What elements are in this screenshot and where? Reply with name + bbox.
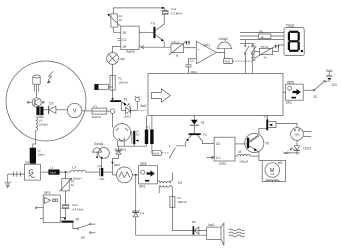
- svg-text:S2: S2: [81, 236, 85, 240]
- svg-text:C1: C1: [122, 38, 126, 42]
- capacitor C2 (elko): [99, 168, 101, 176]
- 7-segment display 7Seg1: [284, 28, 304, 56]
- svg-text:C3: C3: [190, 58, 194, 62]
- DFF output wire: [235, 143, 247, 145]
- wire T7 to VD1: [276, 123, 297, 127]
- svg-text:100µH: 100µH: [239, 159, 248, 163]
- svg-text:RsFf1: RsFf1: [126, 50, 135, 54]
- svg-text:+: +: [198, 47, 200, 51]
- connector node circle: [110, 109, 115, 114]
- ground rail under LED1: [284, 151, 300, 155]
- svg-text:1S: 1S: [122, 31, 126, 35]
- wire Aw1 to GR1: [132, 174, 138, 176]
- segment c: [298, 42, 300, 51]
- OP2 output wire: [60, 216, 64, 218]
- block arrow: [152, 89, 171, 102]
- fuse F3 100mA: [170, 197, 175, 208]
- loudspeaker Lsp1: [207, 227, 221, 239]
- LED2: [121, 109, 125, 111]
- OP1 output wire: [217, 49, 225, 59]
- transistor T1 package (TO-92 can): [33, 75, 40, 92]
- heat arrows PTC2: [276, 46, 279, 48]
- svg-text:VD1: VD1: [294, 133, 300, 137]
- wire C2 to node: [103, 171, 112, 173]
- svg-text:C1: C1: [216, 156, 220, 160]
- svg-text:10µ: 10µ: [99, 177, 104, 181]
- junction arrow: [63, 218, 66, 220]
- junction arrow above Aw1: [111, 162, 113, 164]
- svg-text:Tr2: Tr2: [177, 181, 182, 185]
- svg-text:M: M: [270, 168, 275, 174]
- wire L3 to C2: [86, 171, 100, 173]
- wire node down to D4: [135, 175, 137, 213]
- voltmeter V: [67, 103, 81, 117]
- wire 1R to lamp: [113, 46, 121, 52]
- svg-text:C2: C2: [97, 164, 101, 168]
- wire LED2 to Aw2 node: [131, 109, 138, 111]
- transistor T6 (bottom, bar style): [62, 221, 74, 223]
- svg-text:DFf1: DFf1: [219, 162, 226, 166]
- dashed link Rel2: [233, 60, 253, 62]
- segment b: [298, 32, 300, 41]
- svg-text:D4: D4: [140, 212, 144, 216]
- wire P3 to IC: [113, 27, 121, 32]
- capacitor/resistor pair 100k (black plates): [36, 107, 39, 116]
- potentiometer P1 1k: [65, 172, 67, 179]
- svg-text:L1: L1: [50, 165, 54, 169]
- svg-text:PTC1: PTC1: [172, 40, 180, 44]
- segment f: [288, 32, 290, 41]
- segment d: [289, 50, 298, 52]
- segment g: [289, 40, 298, 42]
- wire F2 down: [112, 90, 114, 98]
- wire PTC1 to OP1: [184, 47, 197, 49]
- junction arrow at crystal: [162, 7, 165, 10]
- fuse F2 100mA: [110, 75, 115, 90]
- svg-text:V: V: [73, 109, 77, 115]
- svg-text:7805: 7805: [287, 80, 294, 84]
- OP2 second pin stub: [40, 218, 43, 220]
- svg-text:G1: G1: [25, 160, 29, 164]
- capacitor C3 100n: [188, 58, 196, 65]
- T2 collector wire: [120, 102, 122, 110]
- motor W1: [262, 161, 285, 182]
- ground marks: [251, 58, 257, 61]
- junction arrow into T2: [111, 98, 114, 100]
- svg-text:1k: 1k: [71, 183, 75, 187]
- display bus wires: [240, 32, 284, 34]
- wire node down to tube: [112, 114, 114, 128]
- svg-text:D2: D2: [49, 102, 53, 106]
- svg-text:100mA: 100mA: [118, 80, 128, 84]
- svg-text:W1: W1: [278, 161, 283, 165]
- Tr1 top wires: [147, 116, 152, 130]
- detector enclosure circle: [6, 61, 86, 141]
- svg-text:Aw1: Aw1: [114, 163, 120, 167]
- svg-text:D5: D5: [192, 220, 196, 224]
- wire bars to D2: [44, 109, 49, 111]
- wire Co2 to T6: [65, 208, 67, 220]
- svg-text:D1: D1: [122, 148, 126, 152]
- svg-text:LED1: LED1: [303, 147, 311, 151]
- svg-text:T6: T6: [75, 217, 79, 221]
- svg-text:7805: 7805: [139, 162, 146, 166]
- VD1 right pins: [303, 131, 311, 136]
- svg-text:4,3 MHz: 4,3 MHz: [72, 207, 84, 211]
- fuse F1 100mA: [92, 108, 107, 114]
- diode D2: [48, 106, 50, 114]
- diode T5: [193, 116, 195, 120]
- inductor L5 100uH: [237, 155, 250, 157]
- capacitor C4 by tube: [131, 131, 132, 143]
- spark / lightning symbol: [48, 71, 53, 81]
- svg-text:L3: L3: [72, 166, 76, 170]
- wire T6 to switch S2: [73, 223, 77, 229]
- segment e: [288, 42, 290, 51]
- sensor VD1: [291, 128, 304, 141]
- lamp La1: [107, 53, 119, 65]
- svg-text:7Seg1: 7Seg1: [286, 23, 295, 27]
- svg-text:T3: T3: [203, 133, 207, 137]
- crystal Co1 4,3 MHz: [161, 11, 168, 15]
- clapper dot: [96, 156, 98, 158]
- transistor T2 (bar style): [110, 100, 121, 102]
- decimal point: [301, 50, 303, 52]
- battery Bat1 12V: [326, 75, 332, 77]
- lightning arrowhead: [46, 81, 50, 84]
- PTC resistor PTC2: [259, 48, 272, 54]
- transistor T1 (BJT in circle): [27, 98, 44, 107]
- svg-text:100mA: 100mA: [177, 200, 187, 204]
- svg-text:1k: 1k: [119, 18, 123, 22]
- inductor L3 100uH: [71, 170, 86, 172]
- inductor L4 100uH: [36, 117, 38, 131]
- svg-text:T5: T5: [201, 121, 205, 125]
- svg-text:OP2: OP2: [44, 191, 51, 195]
- svg-text:T6: T6: [265, 141, 269, 145]
- svg-text:4,3 MHz: 4,3 MHz: [171, 11, 183, 15]
- wire P1 to Co2: [65, 191, 67, 205]
- generator G1: [25, 164, 41, 180]
- voltage regulator GR1 7805: [138, 166, 157, 184]
- svg-text:Gong1: Gong1: [94, 142, 104, 146]
- heat arrows PTC1: [187, 42, 190, 44]
- wire L4 to L2: [33, 131, 36, 148]
- ground: [4, 174, 11, 184]
- svg-text:La1: La1: [120, 57, 126, 61]
- wire L1 to node: [60, 171, 71, 173]
- segment a: [289, 31, 298, 33]
- svg-text:T4: T4: [151, 22, 155, 26]
- svg-text:Bat1: Bat1: [326, 69, 333, 73]
- wire bus to PTC2 and ground: [254, 44, 259, 58]
- wire VD1 to LED1: [296, 140, 298, 145]
- T6 emitter wire to motor: [257, 151, 262, 161]
- resistor R1 1k: [259, 34, 271, 38]
- svg-text:R1: R1: [259, 30, 263, 34]
- Tr1 bottom wires: [147, 144, 153, 153]
- switch S1: [313, 89, 315, 91]
- T6 collector wire: [259, 128, 266, 134]
- svg-text:100µH: 100µH: [39, 123, 48, 127]
- wire block to SP2: [283, 91, 286, 93]
- svg-text:Rel2: Rel2: [225, 60, 231, 64]
- wire G1 to L1: [41, 171, 49, 173]
- wire F1 to junction: [107, 110, 111, 112]
- switch S2: [77, 228, 79, 230]
- relay contact K2b: [251, 44, 253, 46]
- svg-text:GR1: GR1: [139, 185, 146, 189]
- node dot: [135, 174, 137, 176]
- svg-text:1k: 1k: [261, 35, 265, 39]
- antenna input wire with coupling ticks: [8, 171, 25, 176]
- svg-text:1k: 1k: [175, 54, 179, 58]
- IC lower output pin: [139, 46, 142, 48]
- svg-text:L5: L5: [238, 150, 242, 154]
- svg-text:12V: 12V: [331, 83, 338, 87]
- DFF lower pin to L5: [235, 155, 237, 157]
- svg-text:PTC2: PTC2: [261, 45, 269, 49]
- wire Gong1 to C2: [101, 159, 103, 168]
- transistor T6 (circle): [245, 133, 264, 152]
- voltage regulator SP2 7805: [286, 84, 304, 100]
- svg-text:100mA: 100mA: [92, 115, 102, 119]
- potentiometer P3 1k: [111, 14, 117, 27]
- svg-text:-: -: [198, 58, 199, 62]
- dashed link Rel1: [162, 152, 170, 154]
- svg-text:Aw2: Aw2: [140, 104, 146, 108]
- dotted wire to main block: [139, 109, 148, 111]
- inductor L2 10uH (solid): [30, 148, 36, 164]
- wire D2 to V meter: [56, 109, 68, 111]
- svg-text:T2: T2: [124, 98, 128, 102]
- wire PTC2 to display: [273, 45, 284, 52]
- main amplifier block: [148, 74, 283, 116]
- RS flip-flop IC RsFf1: [121, 26, 139, 49]
- op-amp OP1: [196, 41, 216, 63]
- capacitor C1 (elko, horizontal): [95, 84, 109, 89]
- relay coil Rel1: [152, 150, 161, 155]
- wire V to F1: [82, 110, 92, 112]
- input arrow terminal: [141, 46, 171, 48]
- svg-text:10µH: 10µH: [50, 170, 56, 174]
- svg-text:1k: 1k: [263, 56, 267, 60]
- svg-text:LED2: LED2: [124, 114, 132, 118]
- wire under tube: [118, 145, 147, 147]
- wire can to transistor: [36, 92, 38, 98]
- inductor L1 10uH (solid): [48, 170, 59, 175]
- relay coil Rel2: [223, 59, 232, 64]
- PTC resistor PTC1: [171, 44, 184, 53]
- tube pins: [118, 141, 125, 146]
- sound waves: [229, 229, 245, 231]
- buzzer circle: [99, 148, 110, 159]
- svg-text:F1: F1: [94, 104, 98, 108]
- svg-text:Co1: Co1: [171, 7, 177, 11]
- wire F3 to speaker rail: [172, 207, 206, 230]
- svg-text:10µH: 10µH: [37, 153, 44, 157]
- relay contact K2a: [244, 40, 246, 46]
- svg-text:Gong2: Gong2: [218, 37, 228, 41]
- wire node to Aw1: [112, 174, 116, 176]
- svg-text:1R: 1R: [122, 45, 127, 49]
- LED1: [294, 146, 300, 150]
- svg-text:1D: 1D: [216, 142, 221, 146]
- transformer Tr2: [157, 180, 160, 183]
- svg-text:Lsp1: Lsp1: [208, 223, 215, 227]
- LED1 emission arrows: [291, 147, 294, 150]
- OP2 left pin wire: [37, 207, 43, 209]
- svg-text:S1: S1: [313, 95, 317, 99]
- op-amp module OP2: [43, 195, 60, 223]
- wire SP2 to switch S1: [303, 89, 313, 91]
- svg-text:OP1: OP1: [203, 43, 210, 47]
- relay contact K1: [169, 145, 175, 158]
- wire D4 to bottom rail: [136, 217, 207, 235]
- IC output wire to T4: [139, 32, 153, 34]
- wire L2 to G1: [32, 163, 34, 166]
- node junction dot: [65, 171, 67, 173]
- svg-text:Rel1: Rel1: [153, 151, 159, 155]
- wire La1 to F2: [112, 64, 114, 75]
- svg-text:SP2: SP2: [286, 101, 292, 105]
- tube / microphone MIC1: [113, 124, 131, 142]
- indicator terminal Aw2: [135, 98, 139, 102]
- crystal Co2 4,3 MHz: [62, 205, 70, 209]
- top rail wire: [113, 8, 163, 14]
- D flip-flop DFf1: [214, 137, 235, 161]
- transistor T3 (bar style): [189, 133, 201, 135]
